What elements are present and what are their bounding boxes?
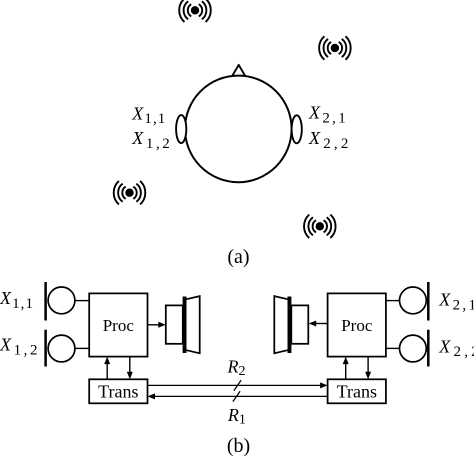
svg-text:Trans: Trans: [337, 382, 377, 402]
wire mic M2,2 to Proc: [386, 347, 400, 349]
svg-text:X1,2: X1,2: [131, 128, 170, 152]
arrow Trans to Proc left (up): [104, 357, 110, 380]
svg-text:Proc: Proc: [103, 316, 135, 335]
sound source S1 top: [179, 0, 211, 22]
wireless link R1 right to left: [148, 393, 328, 399]
arrow Proc to Trans right (down): [365, 357, 371, 380]
arrow Proc to Trans left (down): [127, 357, 133, 380]
loudspeaker right: [274, 296, 308, 353]
right ear: [292, 115, 302, 143]
microphone M2,2: [400, 330, 429, 367]
svg-text:X2,1: X2,1: [308, 103, 346, 127]
svg-text:Trans: Trans: [98, 382, 138, 402]
loudspeaker left: [166, 296, 200, 353]
Proc box left: [89, 293, 147, 356]
svg-text:(b): (b): [227, 435, 250, 456]
sound source S2 upper right: [319, 36, 351, 59]
wire mic M1,2 to Proc: [75, 347, 90, 349]
slash break on R2 link: [234, 380, 241, 390]
Proc box right: [328, 293, 386, 356]
svg-text:(a): (a): [227, 246, 249, 268]
arrow Proc to loudspeaker right: [309, 321, 328, 327]
svg-text:R1: R1: [227, 405, 246, 428]
wire mic M2,1 to Proc: [386, 300, 400, 302]
head: [185, 76, 292, 183]
svg-text:X1,1: X1,1: [131, 103, 165, 127]
sound source S4 lower right: [304, 215, 336, 238]
slash break on R1 link: [233, 391, 240, 401]
microphone M1,2: [46, 330, 75, 367]
svg-text:R2: R2: [227, 356, 246, 379]
nose: [232, 65, 246, 77]
sound source S3 lower left: [114, 181, 146, 204]
arrow Proc to loudspeaker left: [148, 322, 166, 328]
svg-text:X2,2: X2,2: [438, 336, 474, 360]
svg-text:Proc: Proc: [341, 316, 373, 335]
wireless link R2 left to right: [148, 382, 328, 388]
svg-text:X2,2: X2,2: [308, 128, 348, 152]
microphone M2,1: [400, 282, 429, 321]
wire mic M1,1 to Proc: [75, 300, 90, 302]
arrow Trans to Proc right (up): [343, 357, 349, 380]
Trans box left: [89, 379, 147, 403]
svg-text:X1,2: X1,2: [0, 335, 38, 359]
Trans box right: [328, 379, 386, 403]
svg-text:X1,1: X1,1: [0, 288, 33, 312]
left ear: [176, 115, 186, 143]
microphone M1,1: [46, 282, 75, 321]
svg-text:X2,1: X2,1: [438, 290, 474, 314]
